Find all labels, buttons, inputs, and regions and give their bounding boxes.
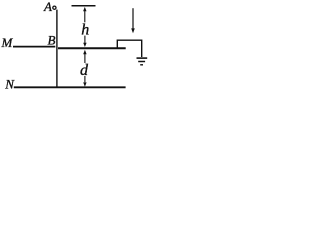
dimension d lower arrow (83, 76, 86, 87)
wire M to B (top plate left segment) (13, 46, 55, 48)
capacitor bottom plate N (14, 86, 126, 88)
svg-text:B: B (48, 33, 56, 48)
capacitor top plate (right of B) (58, 47, 126, 49)
ground (137, 58, 148, 65)
wire from top plate to ground (117, 40, 141, 57)
wire from A down to plate N (56, 10, 58, 88)
svg-text:M: M (1, 35, 14, 50)
reference line above plate (start height) (72, 5, 96, 7)
dimension h upper arrow (83, 7, 86, 22)
terminal A circle (53, 6, 56, 9)
svg-text:A: A (43, 0, 52, 14)
svg-text:N: N (4, 77, 15, 92)
dimension d upper arrow (83, 50, 86, 63)
falling particle arrow (131, 8, 135, 33)
dimension h lower arrow (83, 36, 86, 47)
